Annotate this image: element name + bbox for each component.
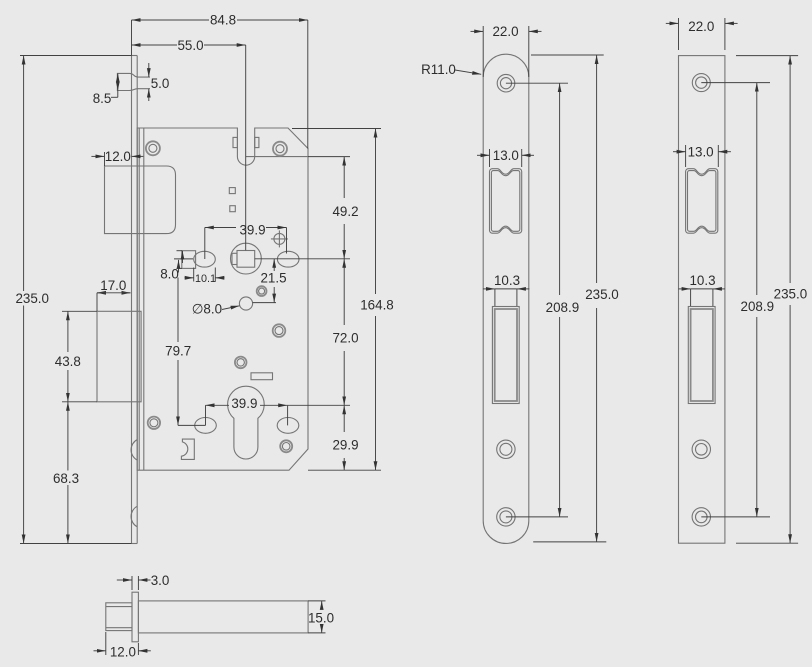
adjustment slot (251, 373, 273, 380)
screw hole top-left (146, 141, 160, 155)
spring clip (181, 439, 194, 459)
svg-text:79.7: 79.7 (165, 344, 191, 359)
dim 72.0 (332, 259, 358, 406)
dim 10.3 right (678, 273, 725, 306)
svg-text:84.8: 84.8 (210, 13, 236, 28)
svg-text:43.8: 43.8 (55, 354, 81, 369)
euro cylinder cutout (228, 386, 265, 459)
dim 235.0 left (15, 56, 131, 544)
svg-text:22.0: 22.0 (688, 19, 714, 34)
svg-text:235.0: 235.0 (15, 291, 49, 306)
latch slot middle (490, 169, 522, 234)
dim 15.0 (308, 601, 334, 633)
svg-text:17.0: 17.0 (100, 278, 126, 293)
spindle follower circle (231, 243, 262, 274)
screw hole low1 (280, 440, 292, 452)
screw hole right middle (692, 440, 710, 458)
dim 12.0 bottom (94, 632, 151, 659)
ext line spindle center (255, 258, 350, 260)
dim 3.0 (117, 573, 170, 590)
dim 39.9 upper (205, 223, 287, 259)
case step line (246, 156, 308, 158)
dim 55.0 (132, 38, 246, 251)
svg-text:235.0: 235.0 (774, 287, 808, 302)
screw hole mid plate top (497, 74, 515, 92)
dim 10.3 middle (483, 273, 530, 306)
ext line case top (292, 128, 381, 130)
spindle square notch (232, 253, 237, 264)
screw hole low2 (148, 417, 160, 429)
dim 22.0 middle (471, 24, 542, 77)
dim 208.9 right (701, 83, 774, 517)
case inner edge 2 (138, 128, 140, 470)
dim 17.0 (97, 278, 131, 311)
screw hole mid plate middle (497, 440, 515, 458)
strike plate outline (679, 56, 725, 544)
dim 8.5 (93, 73, 118, 106)
follower left obround (194, 251, 216, 267)
screw hole mid plate bottom (497, 508, 515, 526)
latch bolt (105, 166, 176, 234)
bolt slot middle (492, 307, 519, 404)
svg-text:49.2: 49.2 (332, 204, 358, 219)
bolt slot right (688, 307, 715, 404)
dim 39.9 lower (206, 396, 288, 425)
dim 13.0 middle (477, 148, 534, 167)
svg-text:55.0: 55.0 (177, 38, 203, 53)
faceplate screw hole side upper (131, 440, 137, 461)
dim 22.0 right (666, 18, 738, 50)
faceplate end view (132, 592, 138, 642)
dim 13.0 right (673, 145, 731, 168)
svg-text:208.9: 208.9 (546, 300, 580, 315)
ext line case bottom (308, 469, 381, 471)
dim 208.9 middle (506, 83, 579, 517)
svg-text:10.3: 10.3 (689, 273, 715, 288)
svg-text:5.0: 5.0 (151, 76, 170, 91)
svg-text:164.8: 164.8 (360, 297, 394, 312)
screw hole mid1 (257, 286, 267, 296)
dim 21.5 (253, 259, 287, 303)
case bottom view (138, 601, 308, 633)
small square hole lower (230, 206, 236, 212)
hole dia 8 (239, 297, 252, 310)
svg-text:13.0: 13.0 (688, 145, 714, 160)
latch end view (106, 603, 132, 631)
dim 8.0 (160, 251, 193, 282)
svg-text:68.3: 68.3 (53, 471, 79, 486)
dim 235.0 middle (531, 55, 619, 542)
dim 84.8 (132, 13, 308, 149)
svg-text:39.9: 39.9 (239, 223, 265, 238)
screw hole right bottom (692, 508, 710, 526)
ext line case step (308, 156, 350, 158)
small square hole upper (229, 188, 235, 194)
svg-text:∅8.0: ∅8.0 (192, 302, 222, 317)
ext line cylinder center (287, 404, 350, 406)
svg-text:12.0: 12.0 (110, 644, 136, 659)
svg-text:21.5: 21.5 (260, 271, 286, 286)
faceplate side view (132, 56, 138, 544)
screw hole right top (692, 74, 710, 92)
svg-text:10.1: 10.1 (195, 273, 216, 285)
svg-text:8.0: 8.0 (160, 266, 179, 281)
svg-text:10.3: 10.3 (494, 273, 520, 288)
middle faceplate outline (483, 54, 529, 543)
dim 164.8 (360, 129, 394, 471)
svg-text:39.9: 39.9 (231, 396, 257, 411)
dim 68.3 (53, 402, 79, 544)
svg-text:15.0: 15.0 (308, 610, 334, 625)
label R11.0 (421, 62, 481, 77)
svg-text:12.0: 12.0 (105, 149, 131, 164)
dim 43.8 (55, 311, 81, 402)
phillips screw (271, 230, 288, 247)
dim 10.1 (185, 268, 225, 286)
svg-text:3.0: 3.0 (151, 573, 170, 588)
follower left plate (182, 251, 196, 269)
lower obround right (277, 418, 299, 434)
screw hole top-right (273, 142, 287, 156)
svg-text:22.0: 22.0 (492, 24, 518, 39)
spindle square (237, 251, 255, 268)
svg-text:235.0: 235.0 (585, 287, 619, 302)
latch slot right (686, 169, 718, 234)
lock case outline (137, 128, 308, 470)
svg-text:29.9: 29.9 (332, 437, 358, 452)
dim 49.2 (332, 157, 358, 259)
follower right obround (277, 251, 299, 267)
clip tab left (233, 137, 237, 147)
label dia 8.0 (192, 302, 240, 317)
svg-text:R11.0: R11.0 (421, 62, 456, 77)
top locating tab (117, 73, 150, 90)
svg-text:8.5: 8.5 (93, 91, 112, 106)
svg-text:13.0: 13.0 (493, 148, 519, 163)
svg-text:208.9: 208.9 (741, 299, 775, 314)
faceplate screw hole side lower (131, 506, 137, 527)
dim 235.0 right (736, 56, 807, 544)
screw hole mid2 (273, 324, 286, 337)
svg-text:72.0: 72.0 (332, 330, 358, 345)
screw hole mid3 (235, 357, 247, 369)
dim 5.0 (149, 63, 170, 101)
dim 12.0 latch (91, 149, 143, 166)
lower obround left (195, 418, 217, 434)
clip tab right (255, 137, 259, 147)
case inner edge (143, 128, 145, 470)
dim 79.7 (165, 278, 205, 426)
dim 29.9 (332, 405, 358, 470)
deadbolt (62, 311, 141, 402)
